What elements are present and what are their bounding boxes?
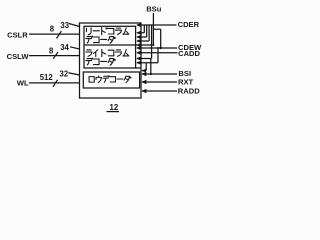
svg-text:12: 12: [110, 103, 119, 112]
svg-text:34: 34: [60, 43, 69, 52]
svg-text:BSI: BSI: [178, 69, 191, 78]
svg-text:WL: WL: [17, 78, 29, 87]
svg-text:32: 32: [60, 70, 69, 79]
svg-text:RXT: RXT: [178, 78, 194, 87]
svg-text:RADD: RADD: [178, 87, 200, 96]
svg-text:CSLW: CSLW: [7, 52, 30, 61]
svg-text:BSu: BSu: [146, 4, 162, 13]
svg-text:CADD: CADD: [178, 49, 200, 58]
svg-text:8: 8: [49, 46, 54, 55]
svg-text:33: 33: [60, 21, 69, 30]
svg-text:CSLR: CSLR: [7, 30, 28, 39]
svg-text:512: 512: [40, 73, 54, 82]
svg-text:CDER: CDER: [178, 20, 200, 29]
svg-text:8: 8: [50, 25, 55, 34]
